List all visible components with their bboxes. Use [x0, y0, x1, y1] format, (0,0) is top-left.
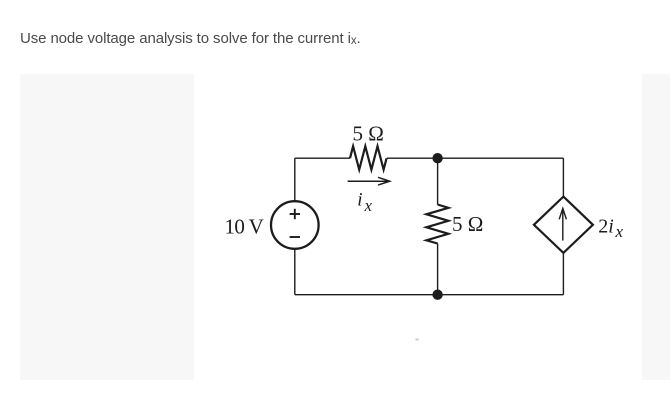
wire top-left segment [295, 157, 350, 159]
resistor R1 5ohm horizontal [350, 146, 387, 169]
dependent current source 2ix diamond [534, 197, 593, 253]
wire middle vertical upper [437, 158, 439, 204]
svg-text:10 V: 10 V [225, 215, 264, 239]
resistor R2 5ohm vertical [426, 205, 448, 244]
wire right vertical lower [562, 253, 564, 295]
arrow inside diamond [559, 208, 566, 240]
current arrow ix [348, 177, 390, 185]
svg-text:x: x [615, 222, 624, 241]
svg-text:2i: 2i [598, 216, 614, 238]
wire top-middle segment [387, 157, 438, 159]
wire bottom [295, 294, 564, 296]
node A top [432, 153, 442, 163]
svg-text:x: x [364, 196, 373, 215]
svg-text:5 Ω: 5 Ω [353, 122, 384, 146]
wire left vertical lower [294, 249, 296, 295]
svg-text:5 Ω: 5 Ω [452, 212, 483, 236]
wire top-right segment [438, 157, 564, 159]
voltage source V1 10V [271, 201, 319, 249]
wire left vertical upper [294, 158, 296, 201]
svg-text:i: i [357, 189, 362, 210]
wire right vertical upper [562, 158, 564, 196]
wire middle vertical lower [437, 244, 439, 295]
minus sign [290, 236, 300, 238]
node B bottom [432, 290, 442, 300]
plus sign [290, 209, 300, 219]
stray faint dot [416, 339, 419, 341]
